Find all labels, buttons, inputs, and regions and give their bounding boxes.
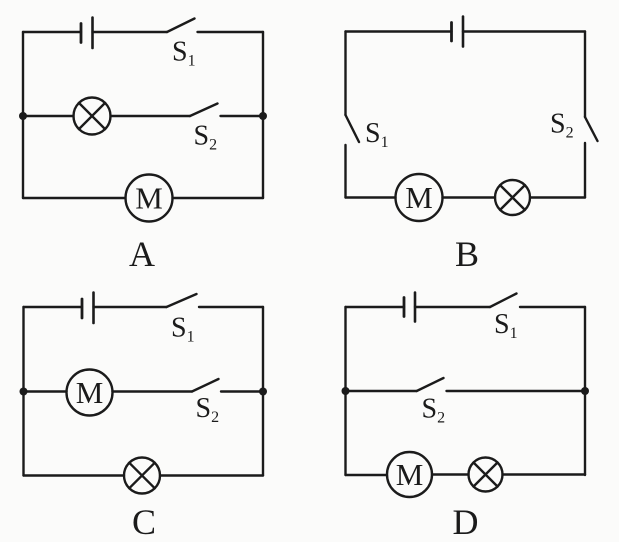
svg-text:S2: S2 xyxy=(422,394,446,427)
svg-text:M: M xyxy=(76,375,104,410)
svg-text:D: D xyxy=(453,502,479,542)
svg-text:S1: S1 xyxy=(365,118,389,151)
svg-text:A: A xyxy=(129,234,155,274)
svg-text:M: M xyxy=(135,181,163,216)
svg-text:S2: S2 xyxy=(550,109,574,142)
svg-text:M: M xyxy=(405,180,433,215)
svg-text:C: C xyxy=(132,502,156,542)
svg-text:S1: S1 xyxy=(494,309,518,342)
svg-text:B: B xyxy=(455,234,479,274)
svg-text:S2: S2 xyxy=(196,393,220,426)
svg-text:S1: S1 xyxy=(171,313,195,346)
svg-text:S1: S1 xyxy=(172,37,196,70)
svg-text:S2: S2 xyxy=(194,121,218,154)
svg-text:M: M xyxy=(396,457,424,492)
